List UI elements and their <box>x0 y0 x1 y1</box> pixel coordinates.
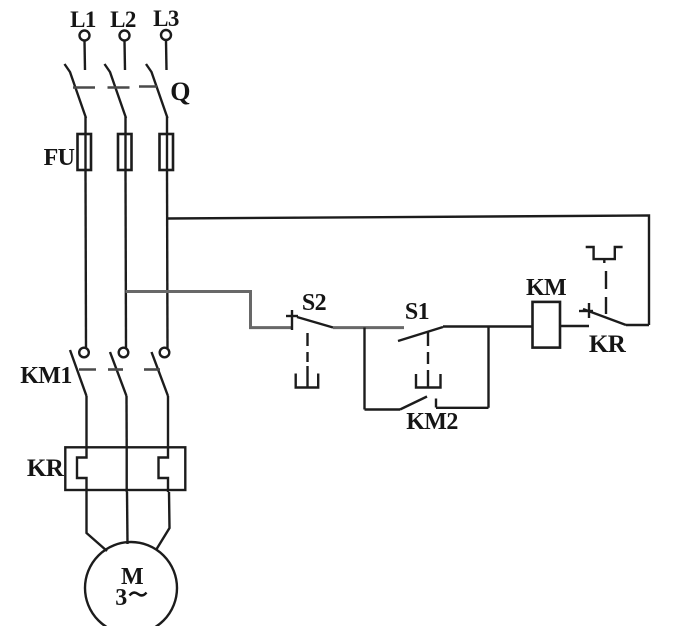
wire S1 to KM coil <box>443 325 533 327</box>
switch Q linkage dash pole 1 <box>73 86 95 89</box>
switch Q linkage dash pole 2 <box>108 86 130 89</box>
svg-text:KR: KR <box>27 455 65 482</box>
wire KM2 branch right riser <box>487 327 489 408</box>
wire phase 2 to motor <box>126 492 129 544</box>
wire FU1 to KM1 contact 1 <box>84 170 87 348</box>
wire L2 terminal to switch Q pole 2 <box>123 41 126 70</box>
switch Q linkage dash pole 3 <box>139 85 157 88</box>
auxiliary contact KM2 (seal-in) <box>400 397 436 410</box>
pushbutton S1 (NO start) contact <box>398 327 443 346</box>
fuse FU3 <box>160 134 174 170</box>
wire L3 terminal to switch Q pole 3 <box>165 41 168 70</box>
wire heater 3 to motor <box>156 492 170 550</box>
terminal L1 <box>80 31 90 41</box>
svg-text:KM1: KM1 <box>20 363 72 389</box>
wire Q pole 1 to fuse FU1 <box>84 117 86 170</box>
svg-text:FU: FU <box>44 145 75 171</box>
wire L1 terminal to switch Q pole 1 <box>83 41 86 70</box>
thermal relay KR trip actuator <box>586 247 623 314</box>
fuse FU1 <box>78 134 92 170</box>
coil KM <box>533 302 561 348</box>
KM1 linkage dash pole 3 <box>144 368 160 371</box>
thermal relay KR heater 1 <box>77 448 87 492</box>
pushbutton S2 actuator <box>296 333 319 388</box>
svg-text:Q: Q <box>170 77 190 106</box>
wire control tap from L2 to S2 <box>126 292 293 328</box>
svg-text:L3: L3 <box>153 6 179 31</box>
pushbutton S1 actuator <box>416 352 441 388</box>
pushbutton S2 (NC stop) contact <box>286 310 333 330</box>
wire control top rail from L3 tap to right drop <box>167 216 649 326</box>
svg-text:S1: S1 <box>405 299 429 325</box>
wire heater 1 to motor <box>87 492 108 551</box>
wire KM2 branch bottom right <box>436 407 489 409</box>
terminal L2 <box>120 31 130 41</box>
thermal relay KR heater 3 <box>159 448 169 492</box>
terminal L3 <box>161 30 171 40</box>
thermal relay KR heater box <box>65 447 185 490</box>
wire KM coil to KR contact <box>560 325 589 327</box>
switch Q pole 3 blade <box>146 64 168 118</box>
svg-text:KM: KM <box>526 275 566 301</box>
wire KR contact to right rail <box>626 324 649 326</box>
contactor KM1 main contact 2 <box>110 348 128 396</box>
contactor KM1 main contact 1 <box>70 348 89 396</box>
contactor KM1 main contact 3 <box>152 348 170 396</box>
wire FU2 to KM1 contact 2 (control tap node at y290) <box>124 170 127 348</box>
svg-text:L2: L2 <box>110 7 136 32</box>
wire KM2 branch left riser <box>363 328 365 410</box>
svg-text:L1: L1 <box>70 7 96 32</box>
wire KM1-3 to KR heater 3 <box>167 396 169 448</box>
fuse FU2 <box>118 134 132 170</box>
svg-text:S2: S2 <box>302 290 326 316</box>
svg-text:KR: KR <box>589 331 627 358</box>
switch Q pole 1 blade <box>65 64 87 118</box>
wire KM1-2 to KR box <box>125 396 128 448</box>
wire phase 2 through KR box <box>125 448 127 492</box>
switch Q pole 2 blade <box>105 64 127 118</box>
svg-text:3: 3 <box>115 585 127 611</box>
thermal relay KR contact (NC) <box>579 303 626 325</box>
wire S2 to S1 <box>333 326 404 329</box>
wire FU3 to KM1 contact 3 (control tap node at y216) <box>166 170 169 348</box>
wire KM2 branch bottom left <box>365 408 401 410</box>
KM1 linkage dash pole 2 <box>108 368 123 371</box>
wire KM1-1 to KR heater 1 <box>85 396 87 448</box>
KM1 linkage dash pole 1 <box>79 368 96 371</box>
motor M 3~ <box>85 542 177 626</box>
wire Q pole 3 to fuse FU3 <box>166 117 168 170</box>
svg-text:KM2: KM2 <box>406 409 458 435</box>
wire Q pole 2 to fuse FU2 <box>124 117 126 170</box>
